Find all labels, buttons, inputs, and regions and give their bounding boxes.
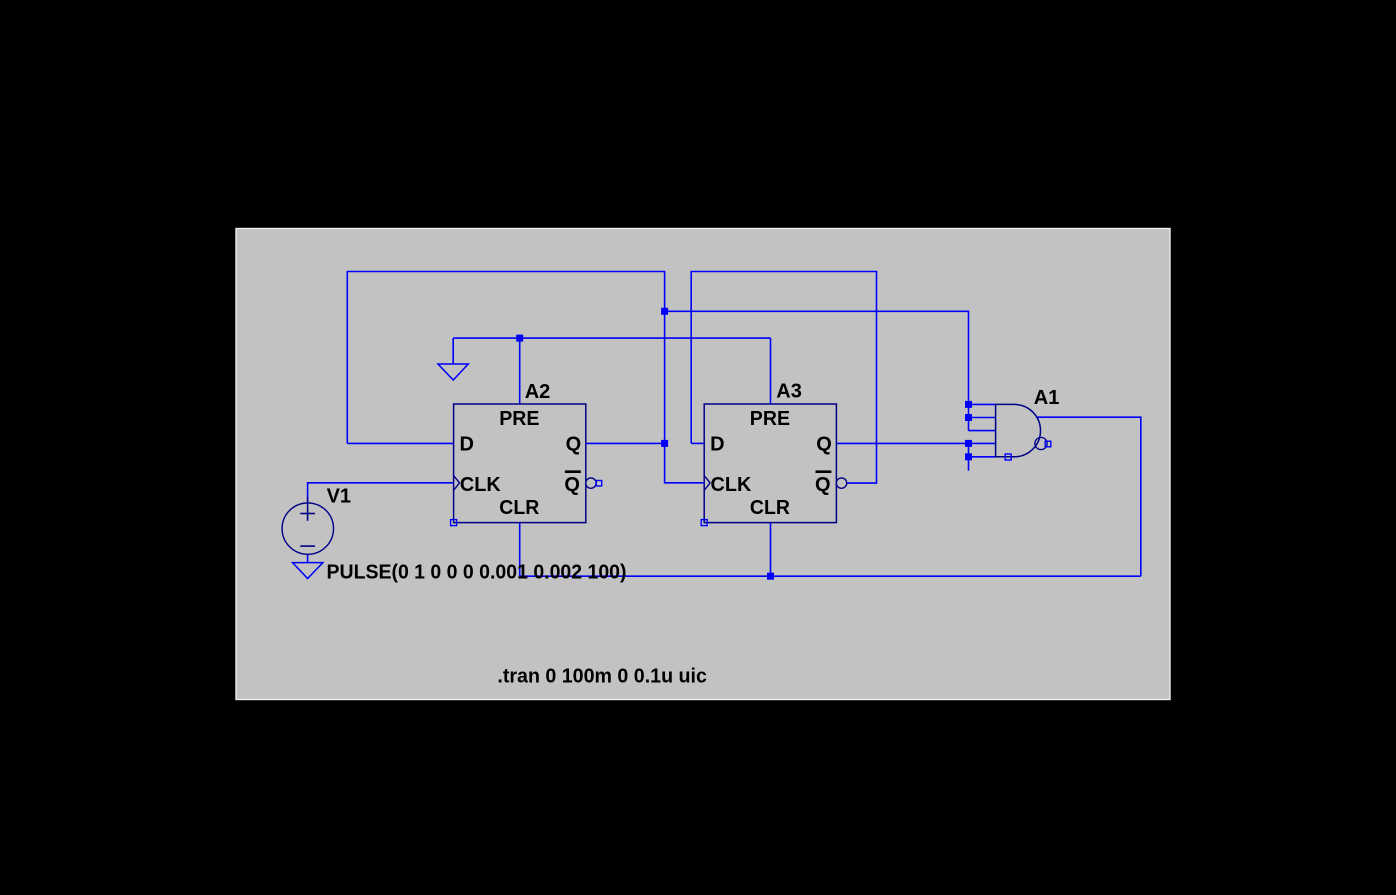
wire: branch from node at (664.6,311.3) to NAND input bus bbox=[665, 311, 969, 430]
wire: top feedback bar from D(A2) riser to Q(A2) node riser bbox=[347, 272, 664, 444]
svg-text:CLR: CLR bbox=[750, 497, 791, 519]
wire: NAND lower input bus segment with tail bbox=[968, 443, 970, 470]
svg-text:CLK: CLK bbox=[460, 474, 501, 496]
wire: CLR drop of A2 bbox=[519, 523, 521, 577]
wire: NAND input stub 4 bbox=[969, 442, 996, 444]
wire: NAND input stub 5 bbox=[969, 456, 996, 458]
svg-text:PRE: PRE bbox=[499, 408, 539, 430]
junction at NAND input 1 bbox=[965, 401, 972, 408]
svg-text:A3: A3 bbox=[776, 380, 802, 402]
wire: PRE pin riser of A3 bbox=[770, 338, 772, 404]
unconnected pin square A2 bottom-left bbox=[451, 520, 457, 526]
wire: ground rail to PRE pins bbox=[453, 337, 770, 339]
svg-text:Q: Q bbox=[564, 474, 580, 496]
svg-text:D: D bbox=[460, 433, 474, 455]
unconnected pin square Qbar A2 bbox=[596, 481, 601, 486]
svg-text:Q: Q bbox=[815, 474, 831, 496]
wire: NAND input stub 3 bbox=[969, 430, 996, 432]
svg-text:A1: A1 bbox=[1034, 387, 1060, 409]
wire: D input stub of A3 bbox=[691, 442, 704, 444]
junction at NAND input 2 bbox=[965, 414, 972, 421]
unconnected pin square NAND common bbox=[1005, 454, 1011, 460]
svg-text:V1: V1 bbox=[327, 486, 351, 508]
voltage source V1 bbox=[282, 498, 333, 555]
wire: junction down to CLK of A3 bbox=[665, 443, 705, 482]
wire: D input stub of A2 bbox=[347, 442, 453, 444]
wire: CLR drop of A3 bbox=[770, 523, 772, 577]
wire: V1 to CLK of A2 bbox=[308, 483, 454, 503]
ground (V1) bbox=[293, 563, 323, 579]
wire: PRE pin riser of A2 bbox=[519, 338, 521, 404]
unconnected pin square A3 bottom-left bbox=[701, 520, 707, 526]
svg-text:Q: Q bbox=[566, 433, 582, 455]
wire: Q output of A3 to NAND input bus bbox=[837, 442, 969, 444]
wire: Q output of A2 to junction bbox=[586, 442, 665, 444]
junction at PRE rail of A2 bbox=[516, 335, 523, 342]
wire: V1 bottom to ground bbox=[307, 554, 309, 563]
wire: ground riser bbox=[452, 338, 454, 364]
wire: second top bar from D(A3) riser to Qbar(A3) riser bbox=[691, 272, 876, 484]
svg-text:Q: Q bbox=[816, 433, 832, 455]
wire: NAND input stub 1 bbox=[969, 403, 996, 405]
svg-text:CLR: CLR bbox=[499, 497, 540, 519]
svg-text:PULSE(0 1 0 0 0 0.001 0.002 10: PULSE(0 1 0 0 0 0.001 0.002 100) bbox=[327, 561, 627, 584]
junction at NAND input 4 bbox=[965, 440, 972, 447]
svg-text:CLK: CLK bbox=[711, 474, 752, 496]
junction at Q(A2)/D(A2) feedback node bbox=[661, 440, 668, 447]
ground (PRE rail) bbox=[438, 364, 468, 380]
NAND gate A1 body bbox=[996, 404, 1048, 456]
wire: NAND input stub 2 bbox=[969, 417, 996, 419]
wire: NAND output feedback right side bbox=[1036, 417, 1141, 576]
junction at CLR reset net bbox=[767, 573, 774, 580]
svg-text:D: D bbox=[710, 433, 724, 455]
flip-flop A3 body bbox=[704, 404, 847, 523]
svg-text:A2: A2 bbox=[525, 381, 551, 403]
junction at NAND input 5 bbox=[965, 453, 972, 460]
svg-text:PRE: PRE bbox=[750, 408, 790, 430]
junction at NAND branch node bbox=[661, 308, 668, 315]
svg-text:.tran 0 100m 0 0.1u uic: .tran 0 100m 0 0.1u uic bbox=[497, 665, 707, 688]
wire: long bottom reset net bbox=[520, 575, 1141, 577]
pin label Qbar (A2) bbox=[564, 472, 580, 496]
pin label Qbar (A3) bbox=[815, 472, 831, 496]
flip-flop A2 body bbox=[454, 404, 597, 523]
unconnected pin square NAND output bbox=[1045, 441, 1051, 447]
